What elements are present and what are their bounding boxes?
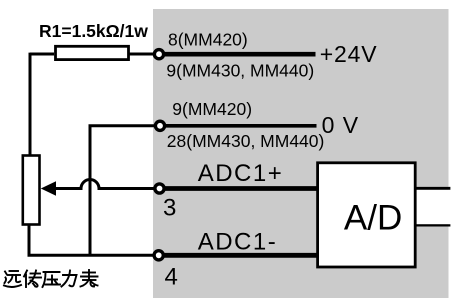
terminal 9 (0V) — [155, 121, 164, 130]
resistor R1 body — [56, 46, 129, 59]
thick line: ADC1- net — [163, 253, 317, 258]
glyph 表 — [81, 270, 98, 287]
svg-text:R1=1.5kΩ/1w: R1=1.5kΩ/1w — [39, 21, 148, 41]
wire: R1 right lead — [129, 53, 155, 56]
svg-text:A/D: A/D — [344, 199, 402, 238]
terminal 8 (+24V) — [154, 50, 163, 59]
wire: potentiometer bottom lead down then right along bottom — [29, 225, 159, 256]
glyph 传 — [24, 271, 41, 288]
svg-text:8(MM420): 8(MM420) — [168, 30, 248, 50]
label 远传压力表 (remote pressure gauge), hand-drawn glyphs — [4, 270, 98, 287]
potentiometer body (remote pressure gauge element) — [23, 156, 40, 225]
wire: wiper to terminal 3 with crossover hump — [52, 180, 159, 189]
wire: R1 left lead — [30, 53, 54, 56]
thick line: 0V net — [164, 124, 317, 128]
potentiometer wiper arrowhead — [41, 181, 56, 196]
glyph 远 — [4, 271, 21, 287]
glyph 力 — [62, 271, 77, 287]
svg-text:ADC1-: ADC1- — [198, 229, 278, 256]
svg-text:9(MM430, MM440): 9(MM430, MM440) — [166, 61, 314, 81]
terminal 3 (ADC1+) — [155, 184, 164, 193]
gray inverter-terminal panel background — [153, 9, 449, 298]
thick line: +24V net — [163, 52, 316, 57]
svg-text:28(MM430, MM440): 28(MM430, MM440) — [167, 131, 325, 151]
wire: left vertical from R1 down to potentiometer — [29, 53, 32, 155]
white gap between A/D output lines — [417, 190, 451, 225]
svg-text:4: 4 — [165, 264, 178, 291]
svg-text:9(MM420): 9(MM420) — [172, 99, 252, 119]
A/D converter block U1 — [318, 163, 416, 267]
thick line: ADC1+ net — [164, 186, 318, 191]
terminal 4 (ADC1-) — [154, 251, 163, 260]
svg-text:3: 3 — [163, 195, 176, 222]
svg-text:+24V: +24V — [320, 41, 378, 67]
glyph 压 — [43, 272, 61, 287]
wire: 0V terminal left then down to bottom wire — [90, 126, 160, 256]
wire: A/D output line upper — [416, 187, 451, 190]
svg-text:0 V: 0 V — [322, 112, 360, 138]
svg-text:ADC1+: ADC1+ — [198, 160, 284, 187]
wire: A/D output line lower — [416, 224, 451, 226]
